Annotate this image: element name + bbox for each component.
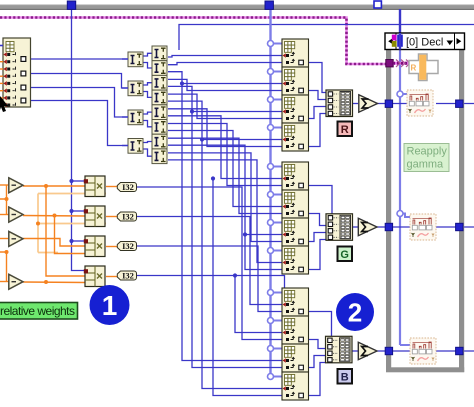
- wire: bundle G2 to build array: [309, 214, 327, 226]
- wire: multiply to I32: [106, 276, 117, 278]
- wire: case tunnel to gamma VI: [392, 226, 410, 228]
- multiply node M4: [85, 266, 105, 287]
- wire: long vertical to bundle B row 5: [182, 84, 282, 361]
- wire junction pale: [36, 222, 40, 226]
- wire: bundle B2 to build array: [309, 340, 327, 349]
- wire: branch to bundle G row 8: [245, 235, 282, 270]
- multiply node M2: [85, 206, 105, 227]
- wire junction: [5, 250, 9, 254]
- wire branch to multiply 2: [72, 210, 87, 212]
- wire junction: [44, 184, 48, 188]
- label: R: [338, 122, 353, 137]
- unbundle output terminal 2: [21, 71, 26, 76]
- wire: weight input 1: [0, 184, 9, 186]
- wire: pale orange row 2: [38, 223, 106, 225]
- wire: sigma to case tunnel: [377, 103, 388, 105]
- wire junction ring: [268, 97, 274, 103]
- wire: split out to bundle row: [168, 86, 282, 111]
- bundle node B5: [282, 162, 309, 190]
- wire: long vertical to bundle B row 8: [213, 179, 282, 396]
- split-number node SL1: [128, 52, 143, 67]
- wire junction ring: [268, 220, 274, 226]
- tunnel T1 on top border: [67, 1, 75, 9]
- wire branch to bundle input: [271, 348, 283, 350]
- wire: multiply to I32: [106, 186, 117, 188]
- I32 conversion node C4: [117, 271, 136, 281]
- wire: split L2 lo to split 4: [143, 92, 152, 98]
- split-number node S4: [152, 90, 167, 105]
- wire: split out to bundle row: [168, 101, 282, 139]
- wire: bundle G1 to build array: [309, 186, 333, 219]
- wire junction: [5, 197, 9, 201]
- wire: split out to bundle row: [168, 94, 282, 118]
- wire junction ring: [268, 374, 274, 380]
- wire: bundle R1 to build array: [309, 63, 327, 93]
- split-number node SL4: [128, 139, 143, 154]
- negate node N3: [9, 231, 23, 246]
- wire: split out to bundle row: [168, 124, 282, 186]
- wire: gamma value vertical inside case: [399, 50, 401, 346]
- wire: split out to bundle row: [168, 72, 282, 84]
- wire: unbundle out 2 to split L2: [31, 74, 129, 89]
- wire junction: [44, 280, 48, 284]
- wire junction: [243, 232, 247, 236]
- wire: bundle B3 to build array: [309, 356, 327, 368]
- split-number node S1: [152, 46, 167, 61]
- wire: sigma to case tunnel: [377, 350, 388, 352]
- wire junction: [190, 109, 194, 113]
- build-array node BA3: [326, 336, 353, 363]
- multiply node M1: [85, 176, 105, 197]
- wire: split L2 hi to split 3: [143, 83, 152, 85]
- unbundle input row 2: [3, 59, 15, 64]
- wire branch to gamma VI B: [400, 344, 410, 346]
- wire: negate 3 to multiply 3: [23, 239, 86, 247]
- wire: multiply to I32: [106, 216, 117, 218]
- coercion dot M2: [84, 209, 88, 213]
- negate node N2: [9, 207, 23, 222]
- wire branch to bundle input: [271, 71, 283, 73]
- I32 conversion node C1: [117, 182, 136, 192]
- tunnel: right blue: [456, 100, 463, 107]
- bundle node B6: [282, 190, 309, 218]
- split-number node S7: [152, 134, 167, 149]
- wire: split out to bundle row: [168, 160, 282, 263]
- wire junction ring: [268, 125, 274, 131]
- weight stub wire: [0, 68, 3, 70]
- case selector label: [385, 33, 465, 50]
- wire junction ring: [268, 69, 274, 75]
- wire junction: [211, 176, 215, 180]
- svg-text:relative weights: relative weights: [0, 304, 75, 318]
- wire: case tunnel to gamma VI: [392, 350, 410, 352]
- cluster wire (pink) top: [0, 18, 386, 65]
- wire: gamma value vertical above case: [399, 9, 401, 33]
- weight stub wire: [0, 90, 3, 92]
- split-number node S8: [152, 149, 167, 164]
- wire: split out to bundle row: [168, 116, 282, 179]
- wire junction: [69, 209, 73, 213]
- unbundle node U1: [3, 38, 31, 107]
- svg-text:2: 2: [348, 298, 362, 328]
- wire branch to bundle input: [271, 320, 283, 322]
- tunnel T2 on top border: [265, 1, 273, 9]
- wire: split L4 lo to split 8: [143, 149, 152, 156]
- bundle node B1: [282, 39, 309, 67]
- svg-text:[0] Decl: [0] Decl: [406, 36, 443, 48]
- unbundle input wire: [0, 45, 3, 47]
- case structure frame: [386, 50, 464, 373]
- wire branch to bundle input: [271, 250, 283, 252]
- wire: I32 #1 to bundle B row 4: [137, 187, 283, 340]
- wire branch to bundle input: [271, 292, 283, 294]
- split-number node S3: [152, 75, 167, 90]
- svg-text:gamma: gamma: [407, 159, 445, 171]
- wire: bundle G3 to build array: [309, 233, 327, 242]
- wire branch to multiply 3: [72, 240, 87, 242]
- add-array-elements node SUM2: [358, 218, 377, 235]
- wire: branch vertical from I32 #4 line: [235, 276, 282, 333]
- wire junction ring: [268, 346, 274, 352]
- wire junction ring: [268, 248, 274, 254]
- coercion dot M3: [84, 239, 88, 243]
- outer structure top border: [0, 5, 474, 10]
- wire: weight bus c: [6, 185, 8, 199]
- wire branch to bundle input: [271, 127, 283, 129]
- bundle node B10: [282, 316, 309, 344]
- build-array node BA1: [326, 90, 353, 117]
- svg-text:B: B: [341, 371, 349, 383]
- svg-text:R: R: [341, 124, 349, 136]
- wire branch to bundle input: [271, 166, 283, 168]
- wire junction: [69, 179, 73, 183]
- wire: split out to bundle row: [168, 153, 282, 242]
- wire: split L4 hi to split 7: [143, 142, 152, 143]
- wire branch to bundle input: [271, 222, 283, 224]
- wire: I32 #2 to bundle B row 1: [137, 217, 283, 305]
- wire: cluster to reapply-gamma VI: [393, 62, 409, 65]
- tunnel: left blue: [385, 347, 392, 354]
- coercion dot M1: [84, 179, 88, 183]
- wire: gamma VI to right edge: [436, 103, 474, 105]
- wire branch to gamma VI R: [400, 93, 407, 95]
- reapply-gamma config VI (plus icon): [409, 54, 438, 81]
- wire: unbundle out 3 to split L3: [31, 88, 129, 118]
- wire: long vertical to bundle B row 6: [192, 112, 282, 368]
- wire branch to multiply 1: [72, 180, 87, 182]
- wire: gamma vertical over label: [399, 33, 401, 50]
- wire: I32 #4 to bundle B node 1: [137, 276, 285, 292]
- I32 conversion node C2: [117, 212, 136, 222]
- svg-text:G: G: [340, 249, 349, 261]
- label: G: [338, 247, 353, 262]
- weight stub wire: [0, 97, 3, 99]
- wire: gamma VI to right edge: [436, 350, 474, 352]
- wire: split out to bundle row: [168, 131, 282, 207]
- weight stub wire: [0, 82, 3, 84]
- wire junction: [180, 81, 184, 85]
- wire: split L3 lo to split 6: [143, 121, 152, 127]
- coercion dot M4: [84, 269, 88, 273]
- gamma VI icon V2: [410, 214, 436, 240]
- weight stub wire: [0, 61, 3, 63]
- wire: split 1 output to right edge: [179, 25, 474, 51]
- wire: split out to bundle row: [168, 63, 282, 65]
- wire junction on I32 #4 line: [233, 273, 237, 277]
- tunnel: right blue: [456, 223, 463, 230]
- weight stub wire: [0, 75, 3, 77]
- split-number node S6: [152, 120, 167, 135]
- label: Reapply gamma: [404, 144, 449, 172]
- wire junction: [69, 239, 73, 243]
- tunnel: right blue: [456, 347, 463, 354]
- wire: weight bus a: [0, 199, 7, 215]
- bundle node B11: [282, 344, 309, 372]
- balloon 2: [336, 293, 374, 331]
- unbundle input row 1: [3, 52, 15, 57]
- balloon 1: [90, 285, 130, 325]
- wire junction ring: [268, 290, 274, 296]
- tunnel: cluster purple: [386, 60, 393, 67]
- unbundle input row 8: [3, 103, 15, 108]
- wire junction ring: [268, 192, 274, 198]
- wire: multiply to I32: [106, 246, 117, 248]
- cursor arrow: [0, 96, 9, 112]
- wire: pale orange row 3: [38, 252, 58, 254]
- wire junction ring: [268, 164, 274, 170]
- wire: bundle R2 to build array: [309, 91, 327, 100]
- wire junction: [200, 137, 204, 141]
- wire: build array to sigma: [353, 350, 359, 352]
- wire: split L1 hi to split 1: [143, 53, 152, 56]
- tunnel: left blue: [385, 223, 392, 230]
- wire: pale orange row 1: [38, 193, 106, 195]
- wire: bundle G4 to build array: [309, 240, 327, 270]
- wire: unbundle out 1 to split L1: [31, 58, 129, 60]
- unbundle input row 4: [3, 74, 15, 79]
- wire: weight bus b: [0, 252, 7, 282]
- split-number node S5: [152, 105, 167, 120]
- bundle node B7: [282, 218, 309, 246]
- wire: negate 2 to multiply 2: [23, 215, 86, 218]
- bundle node B9: [282, 288, 309, 316]
- wire branch to bundle input: [271, 376, 283, 378]
- split-number node SL3: [128, 110, 143, 125]
- unbundle output terminal 1: [21, 57, 26, 62]
- label: B: [338, 369, 353, 384]
- wire: negate 4 to multiply 4: [23, 281, 86, 284]
- add-array-elements node SUM1: [359, 95, 378, 112]
- wire: weight input 3: [0, 238, 9, 240]
- negate node N1: [9, 178, 23, 193]
- wire: split out to bundle row: [168, 56, 282, 58]
- unbundle output terminal 3: [21, 85, 26, 90]
- tunnel: left blue: [385, 100, 392, 107]
- wire: branch to multiply 3 low: [55, 216, 87, 254]
- unbundle input row 6: [3, 88, 15, 93]
- bundle node B4: [282, 123, 309, 151]
- negate node N4: [9, 274, 23, 289]
- wire: pale orange vertical: [37, 194, 39, 253]
- wire: split out to bundle row: [168, 145, 282, 234]
- wire: split out to bundle row: [168, 109, 282, 147]
- wire: bundle B1 to build array: [309, 312, 332, 342]
- I32 conversion node C3: [117, 241, 136, 251]
- wire branch to bundle input: [271, 99, 283, 101]
- bundle node B2: [282, 67, 309, 95]
- wire: negate 1 to multiply 1: [23, 185, 86, 187]
- wire junction: [53, 214, 57, 218]
- gamma VI icon V3: [410, 338, 436, 364]
- wire: case tunnel to gamma VI: [392, 103, 410, 105]
- bundle node B3: [282, 95, 309, 123]
- add-array-elements node SUM3: [358, 342, 377, 359]
- svg-text:1: 1: [102, 290, 118, 321]
- wire branch to bundle input: [271, 194, 283, 196]
- wire branch to bundle input: [271, 43, 283, 45]
- wire: split L3 hi to split 5: [143, 112, 152, 114]
- split-number node S2: [152, 61, 167, 76]
- wire: bundle R4 to build array: [309, 114, 327, 147]
- split-number node SL2: [128, 81, 143, 96]
- wire: bundle R3 to build array: [309, 107, 327, 119]
- wire: tunnel T2 cluster run down bundle column: [269, 9, 271, 377]
- wire junction: [397, 211, 403, 217]
- wire: long vertical to bundle B row 7: [202, 140, 282, 389]
- tunnel T3 on top border (hollow): [374, 1, 381, 8]
- wire: split out to bundle row: [168, 79, 282, 90]
- wire: gamma VI to right edge: [436, 226, 474, 228]
- unbundle input row 3: [3, 67, 15, 72]
- wire junction ring: [268, 318, 274, 324]
- bundle node B12: [282, 372, 309, 400]
- build-array node BA2: [326, 214, 353, 241]
- gamma VI icon V1: [407, 90, 433, 116]
- wire: weight input 4: [0, 281, 9, 283]
- bundle node B8: [282, 246, 309, 274]
- wire: branch to multiply 4 mid: [46, 186, 86, 276]
- wire: build array to sigma: [353, 103, 359, 105]
- multiply node M3: [85, 236, 105, 257]
- wire: split out to bundle row: [168, 138, 282, 213]
- wire: bundle B4 to build array: [309, 363, 327, 396]
- wire: build array to sigma: [353, 226, 359, 228]
- wire: unbundle out 4 to split L4: [31, 101, 129, 146]
- svg-text:R: R: [411, 64, 417, 73]
- wire: weight input 2: [0, 214, 9, 216]
- wire: tunnel T1 down to multiply column: [72, 9, 87, 271]
- label: relative weights: [0, 303, 78, 320]
- wire: split L1 lo to split 2: [143, 63, 152, 69]
- wire junction ring: [268, 41, 274, 47]
- wire branch to gamma VI G: [400, 214, 410, 218]
- wire junction: [397, 91, 403, 97]
- wire: I32 #3 to bundle B row 2: [137, 246, 283, 312]
- svg-text:Reapply: Reapply: [407, 146, 448, 158]
- unbundle output terminal 4: [21, 98, 26, 103]
- unbundle input row 7: [3, 96, 15, 101]
- unbundle input row 5: [3, 81, 15, 86]
- wire: sigma to case tunnel: [377, 226, 388, 228]
